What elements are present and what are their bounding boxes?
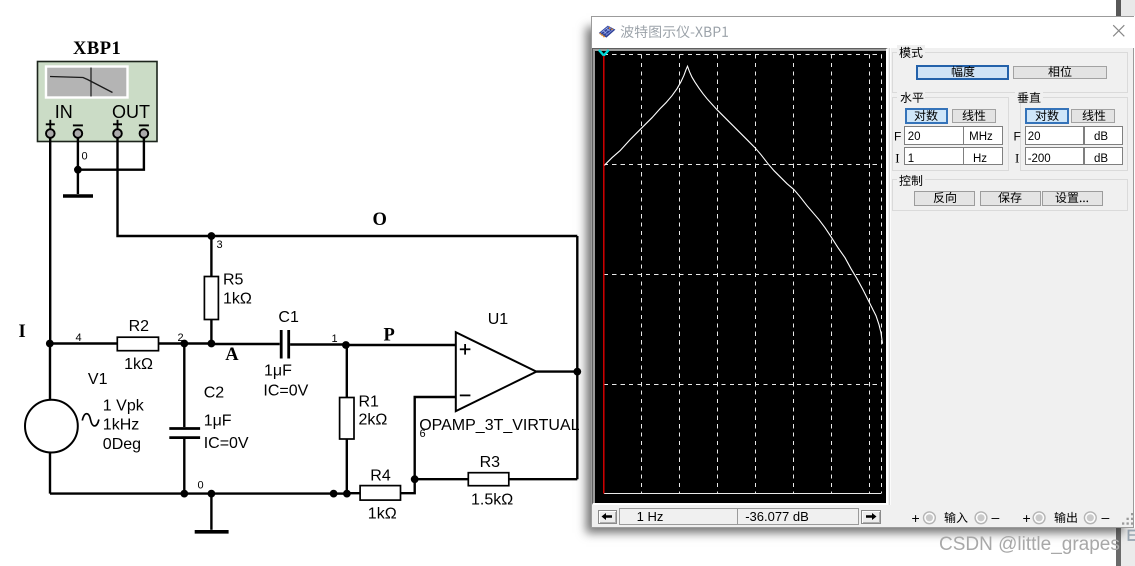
resistor R3: [468, 473, 509, 486]
node I label: [19, 322, 27, 342]
instrument OUT label: [112, 102, 150, 122]
resistor R4 labels: [368, 468, 397, 523]
wire node 1 to op-amp + input: [346, 344, 456, 346]
svg-text:+: +: [912, 509, 920, 525]
wire node I to R2: [50, 342, 118, 344]
resistor R1: [340, 398, 354, 440]
svg-text:1kHz: 1kHz: [103, 417, 139, 434]
node 6 label: [420, 428, 426, 440]
wire R3 to output bus: [509, 478, 578, 480]
vertical scale buttons: [1025, 108, 1069, 124]
svg-text:2: 2: [178, 332, 184, 344]
wire C1 to node 1: [290, 343, 346, 345]
junction feedback node 6: [411, 475, 419, 483]
svg-text:1 Vpk: 1 Vpk: [103, 398, 145, 415]
node 2 label: [178, 332, 184, 344]
wire C2 to bottom rail: [183, 439, 185, 494]
svg-text:V1: V1: [88, 371, 108, 388]
voltage source V1: [25, 400, 99, 453]
instrument XBP1 screen: [46, 67, 128, 98]
terminal IN+: [46, 129, 55, 138]
wire op-amp output to bus: [536, 370, 577, 372]
junction output node: [573, 368, 581, 376]
node 3 label: [217, 239, 223, 251]
svg-text:+: +: [1023, 509, 1031, 525]
capacitor C1: [281, 330, 289, 359]
svg-text:F: F: [1014, 129, 1021, 143]
wire node 2 to C2: [183, 344, 185, 428]
junction node I: [46, 340, 54, 348]
svg-text:XBP1: XBP1: [73, 39, 121, 59]
wire feedback junction to R3: [415, 478, 469, 480]
title icon: [597, 23, 617, 39]
svg-text:R3: R3: [480, 454, 501, 471]
svg-text:dB: dB: [1094, 131, 1108, 143]
wire R5 to node A: [210, 320, 212, 344]
junction C2 bottom: [180, 490, 188, 498]
wire output bus node O to R3: [576, 236, 578, 479]
wire OUT+ terminal to node 3 rail: [118, 138, 578, 236]
node A label: [225, 345, 239, 365]
separator between plot and panel: [889, 48, 890, 505]
ground GND1: [63, 170, 93, 196]
svg-text:A: A: [225, 345, 239, 365]
svg-text:dB: dB: [1094, 153, 1108, 165]
voltage source V1 labels: [88, 371, 145, 453]
wire IN- terminal to ground junction: [77, 138, 79, 170]
svg-text:20: 20: [908, 131, 921, 143]
resistor R2: [117, 337, 158, 351]
horizontal scale buttons: [905, 108, 949, 124]
svg-text:IC=0V: IC=0V: [204, 435, 249, 452]
wire node 1 to R1: [346, 345, 348, 398]
node 0 label (bottom): [198, 480, 204, 492]
op-amp U1: [456, 332, 537, 411]
svg-text:1: 1: [332, 333, 338, 345]
svg-text:–: –: [992, 509, 1000, 525]
wire R1 to bottom rail: [346, 439, 348, 494]
svg-text:0: 0: [198, 480, 204, 492]
svg-text:MHz: MHz: [969, 131, 993, 143]
svg-text:0: 0: [82, 151, 88, 163]
svg-text:1.5kΩ: 1.5kΩ: [471, 492, 513, 509]
F/I fields vertical: [1025, 126, 1084, 145]
svg-text:1 Hz: 1 Hz: [637, 509, 664, 524]
junction node A: [208, 340, 216, 348]
capacitor C2: [169, 429, 200, 438]
svg-text:I: I: [895, 150, 899, 165]
terminal OUT+ polarity mark: [113, 120, 122, 129]
svg-text:F: F: [894, 129, 901, 143]
svg-text:6: 6: [420, 428, 426, 440]
terminal IN-: [74, 129, 83, 138]
svg-text:0Deg: 0Deg: [103, 436, 141, 453]
resistor R2 labels: [124, 318, 153, 373]
svg-text:P: P: [384, 326, 396, 346]
wire node A to C1: [211, 343, 279, 345]
svg-text:Hz: Hz: [973, 153, 987, 165]
svg-text:OPAMP_3T_VIRTUAL: OPAMP_3T_VIRTUAL: [419, 417, 579, 434]
junction ground node 0 bottom: [208, 490, 216, 498]
svg-text:-36.077 dB: -36.077 dB: [745, 509, 809, 524]
svg-text:1μF: 1μF: [264, 363, 292, 380]
terminal IN- polarity mark: [73, 124, 83, 126]
junction node 3: [208, 232, 216, 240]
watermark: [939, 534, 1134, 564]
plot panel: [592, 48, 888, 505]
control buttons: [914, 191, 975, 206]
group boxes: [892, 52, 1128, 94]
wire node I to V1: [49, 344, 51, 400]
terminal OUT+: [113, 129, 122, 138]
svg-text:C1: C1: [278, 309, 299, 326]
svg-text:O: O: [373, 210, 388, 230]
capacitor C2 labels: [204, 385, 249, 453]
svg-text:4: 4: [76, 332, 82, 344]
svg-text:U1: U1: [488, 311, 509, 328]
wire OUT- terminal to ground junction: [78, 138, 144, 170]
terminal IN+ polarity mark: [46, 120, 55, 129]
capacitor C1 labels: [263, 309, 308, 400]
svg-text:R5: R5: [223, 272, 244, 289]
svg-text:1kΩ: 1kΩ: [368, 506, 397, 523]
svg-text:I: I: [1015, 150, 1019, 165]
resistor R1 labels: [359, 394, 388, 429]
instrument IN label: [55, 102, 73, 122]
wire feedback junction to op-amp - input: [415, 397, 456, 479]
svg-text:-200: -200: [1028, 153, 1051, 165]
wire R2 to node 2: [159, 342, 185, 344]
instrument XBP1 label: [73, 39, 121, 59]
svg-text:C2: C2: [204, 385, 225, 402]
svg-text:R1: R1: [359, 394, 380, 411]
junction node 1: [342, 341, 350, 349]
wire between rail dots: [334, 492, 347, 494]
svg-text:IC=0V: IC=0V: [263, 383, 308, 400]
svg-text:1μF: 1μF: [204, 413, 232, 430]
svg-text:OUT: OUT: [112, 102, 150, 122]
node P label: [384, 326, 396, 346]
wire bottom rail: [50, 492, 334, 494]
junction node 2: [180, 340, 188, 348]
node O label: [373, 210, 388, 230]
node 4 label: [76, 332, 82, 344]
terminal OUT-: [140, 129, 149, 138]
op-amp U1 model label: [419, 417, 579, 434]
resistor R5: [204, 277, 218, 320]
resize grip: [1114, 508, 1134, 528]
node 0 label (instrument): [82, 151, 88, 163]
wire IN+ terminal to node I: [49, 138, 51, 344]
wire R4 to feedback junction: [401, 479, 415, 493]
junction bottom rail left dot: [330, 490, 338, 498]
svg-text:20: 20: [1028, 131, 1041, 143]
op-amp U1 reference label: [488, 311, 509, 328]
mode buttons: [916, 65, 1009, 81]
F/I fields horizontal: [904, 126, 964, 145]
junction R1 bottom: [343, 490, 351, 498]
node 1 label: [332, 333, 338, 345]
svg-text:R2: R2: [129, 318, 150, 335]
wire R1 junction to R4: [347, 492, 360, 494]
resistor R5 labels: [223, 272, 252, 308]
svg-text:1kΩ: 1kΩ: [223, 291, 252, 308]
svg-text:3: 3: [217, 239, 223, 251]
svg-text:1kΩ: 1kΩ: [124, 356, 153, 373]
svg-text:IN: IN: [55, 102, 73, 122]
svg-text:I: I: [19, 322, 27, 342]
terminal OUT- polarity mark: [139, 124, 149, 126]
resistor R3 labels: [471, 454, 513, 509]
junction ground node 0: [74, 166, 82, 174]
instrument XBP1 body: [38, 62, 158, 142]
ground GND2: [195, 494, 229, 532]
group labels (bg patch over border): [897, 45, 925, 58]
svg-text:2kΩ: 2kΩ: [359, 412, 388, 429]
svg-text:R4: R4: [370, 468, 391, 485]
svg-text:1: 1: [908, 153, 914, 165]
status bar: [598, 510, 617, 524]
wire V1 to bottom rail: [49, 452, 51, 493]
wire node 2 to node A: [184, 342, 211, 344]
wire node 3 to R5: [210, 236, 212, 277]
resistor R4: [360, 486, 400, 501]
close button: [1111, 23, 1127, 39]
svg-text:–: –: [1102, 509, 1110, 525]
